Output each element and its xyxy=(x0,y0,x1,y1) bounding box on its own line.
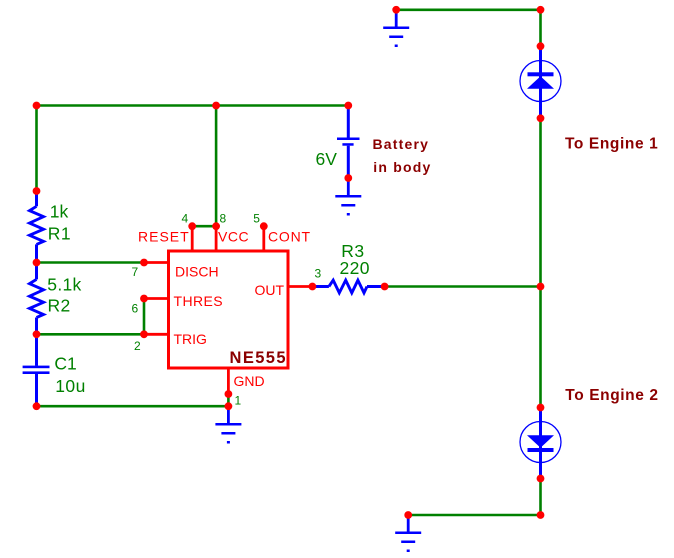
pin label VCC xyxy=(218,229,249,245)
wire DISCH net xyxy=(37,261,145,264)
svg-text:10u: 10u xyxy=(55,376,86,396)
junction bottom right corner xyxy=(537,511,545,519)
node gnd top xyxy=(392,6,400,14)
node pin 3 xyxy=(309,283,317,291)
svg-text:NE555: NE555 xyxy=(230,349,287,367)
wire top right horizontal xyxy=(396,9,540,12)
pin number 6 xyxy=(132,302,139,316)
pin number 1 xyxy=(235,394,242,408)
label R1 xyxy=(48,224,71,244)
capacitor C1 xyxy=(23,334,50,406)
wire LED2 bottom vertical xyxy=(539,479,542,516)
node R2 bottom xyxy=(33,330,41,338)
node R1 bottom xyxy=(33,259,41,267)
wire right vertical LED1 to LED2 xyxy=(539,118,542,407)
svg-text:3: 3 xyxy=(315,267,322,281)
pin 8 VCC stub xyxy=(215,226,218,251)
node pin 2 xyxy=(140,330,148,338)
junction rail VCC xyxy=(212,102,220,110)
wire pin4 to pin8 tie xyxy=(192,225,216,228)
pin label RESET xyxy=(138,229,190,245)
junction rail left xyxy=(33,102,41,110)
svg-text:RESET: RESET xyxy=(138,229,190,245)
label R2 xyxy=(48,295,71,315)
label 1k xyxy=(50,202,69,222)
svg-text:To Engine 1: To Engine 1 xyxy=(565,136,658,153)
svg-text:5.1k: 5.1k xyxy=(47,275,81,295)
node C1 bottom xyxy=(33,402,41,410)
svg-text:C1: C1 xyxy=(54,353,76,373)
svg-text:To Engine 2: To Engine 2 xyxy=(565,387,658,404)
resistor R1 xyxy=(30,191,44,263)
pin label GND xyxy=(234,373,265,389)
pin number 7 xyxy=(132,265,139,279)
svg-text:OUT: OUT xyxy=(255,282,285,298)
node LED2 bottom xyxy=(537,475,545,483)
wire OUT net xyxy=(385,285,541,288)
svg-text:Battery: Battery xyxy=(373,136,430,152)
node LED1 bottom xyxy=(537,114,545,122)
svg-text:GND: GND xyxy=(234,373,265,389)
pin number 4 xyxy=(182,211,189,225)
battery B1 xyxy=(337,106,360,179)
svg-text:THRES: THRES xyxy=(174,293,223,309)
pin label OUT xyxy=(255,282,285,298)
pin label CONT xyxy=(268,229,311,245)
label 6V xyxy=(316,149,338,169)
wire VCC drop xyxy=(215,106,218,227)
node pin 8 xyxy=(212,222,220,230)
svg-text:6V: 6V xyxy=(316,149,338,169)
junction rail battery xyxy=(344,102,352,110)
pin 6 THRES stub xyxy=(144,297,169,300)
LED D2 xyxy=(520,408,561,479)
resistor R3 xyxy=(312,280,384,293)
pin number 5 xyxy=(253,211,260,225)
junction OUT right xyxy=(537,283,545,291)
svg-text:in body: in body xyxy=(373,159,431,175)
node gnd bottom left xyxy=(404,511,412,519)
label To Engine 1 xyxy=(565,136,658,153)
label To Engine 2 xyxy=(565,387,658,404)
node pin 6 xyxy=(140,295,148,303)
label R3 xyxy=(341,241,364,261)
svg-text:R1: R1 xyxy=(48,224,71,244)
svg-text:4: 4 xyxy=(182,211,189,225)
svg-text:R2: R2 xyxy=(48,295,71,315)
pin 7 DISCH stub xyxy=(144,261,169,264)
svg-text:1: 1 xyxy=(235,394,242,408)
LED D1 xyxy=(520,46,561,118)
pin label DISCH xyxy=(175,264,219,280)
svg-text:5: 5 xyxy=(253,211,260,225)
wire THRES-TRIG tie xyxy=(143,299,146,335)
node pin 1 xyxy=(225,390,233,398)
svg-text:7: 7 xyxy=(132,265,139,279)
svg-text:1k: 1k xyxy=(50,202,69,222)
node R1 top xyxy=(33,187,41,195)
pin label TRIG xyxy=(174,331,207,347)
wire pin1 to ground tie xyxy=(227,394,230,406)
label in body xyxy=(373,159,431,175)
ground battery xyxy=(335,178,361,216)
svg-text:VCC: VCC xyxy=(218,229,249,245)
pin number 3 xyxy=(315,267,322,281)
node pin 7 xyxy=(140,259,148,267)
junction top right corner xyxy=(537,6,545,14)
wire bottom right horizontal xyxy=(408,514,540,517)
pin 2 TRIG stub xyxy=(144,333,169,336)
label NE555 xyxy=(230,349,287,367)
svg-text:DISCH: DISCH xyxy=(175,264,219,280)
pin number 8 xyxy=(220,211,227,225)
wire top right vertical to LED1 xyxy=(539,10,542,46)
wire top rail xyxy=(37,104,349,107)
ground bottom left xyxy=(395,515,421,552)
pin 3 OUT stub xyxy=(288,285,312,288)
node R3 right xyxy=(381,283,389,291)
svg-text:2: 2 xyxy=(134,339,141,353)
svg-text:CONT: CONT xyxy=(268,229,311,245)
ground NE555 pin1 xyxy=(215,406,241,443)
label 10u xyxy=(55,376,86,396)
wire left vertical to R1 xyxy=(35,106,38,192)
pin 4 RESET stub xyxy=(191,226,194,251)
pin 5 CONT stub xyxy=(262,226,265,251)
node battery minus xyxy=(344,174,352,182)
node gnd NE555 xyxy=(225,402,233,410)
node pin 4 xyxy=(188,222,196,230)
node LED1 top xyxy=(537,42,545,50)
resistor R2 xyxy=(30,263,44,335)
svg-text:TRIG: TRIG xyxy=(174,331,207,347)
svg-text:6: 6 xyxy=(132,302,139,316)
pin label THRES xyxy=(174,293,223,309)
node LED2 top xyxy=(537,404,545,412)
node pin 5 xyxy=(260,222,268,230)
svg-text:8: 8 xyxy=(220,211,227,225)
ground top xyxy=(383,10,409,47)
pin 1 GND stub xyxy=(227,368,230,394)
op-amp U1 NE555 body xyxy=(169,251,289,368)
wire TRIG net xyxy=(37,333,145,336)
label 5.1k xyxy=(47,275,81,295)
label C1 xyxy=(54,353,76,373)
svg-text:220: 220 xyxy=(340,258,370,278)
label Battery xyxy=(373,136,430,152)
pin number 2 xyxy=(134,339,141,353)
label 220 xyxy=(340,258,370,278)
wire ground net bottom left xyxy=(37,405,229,408)
